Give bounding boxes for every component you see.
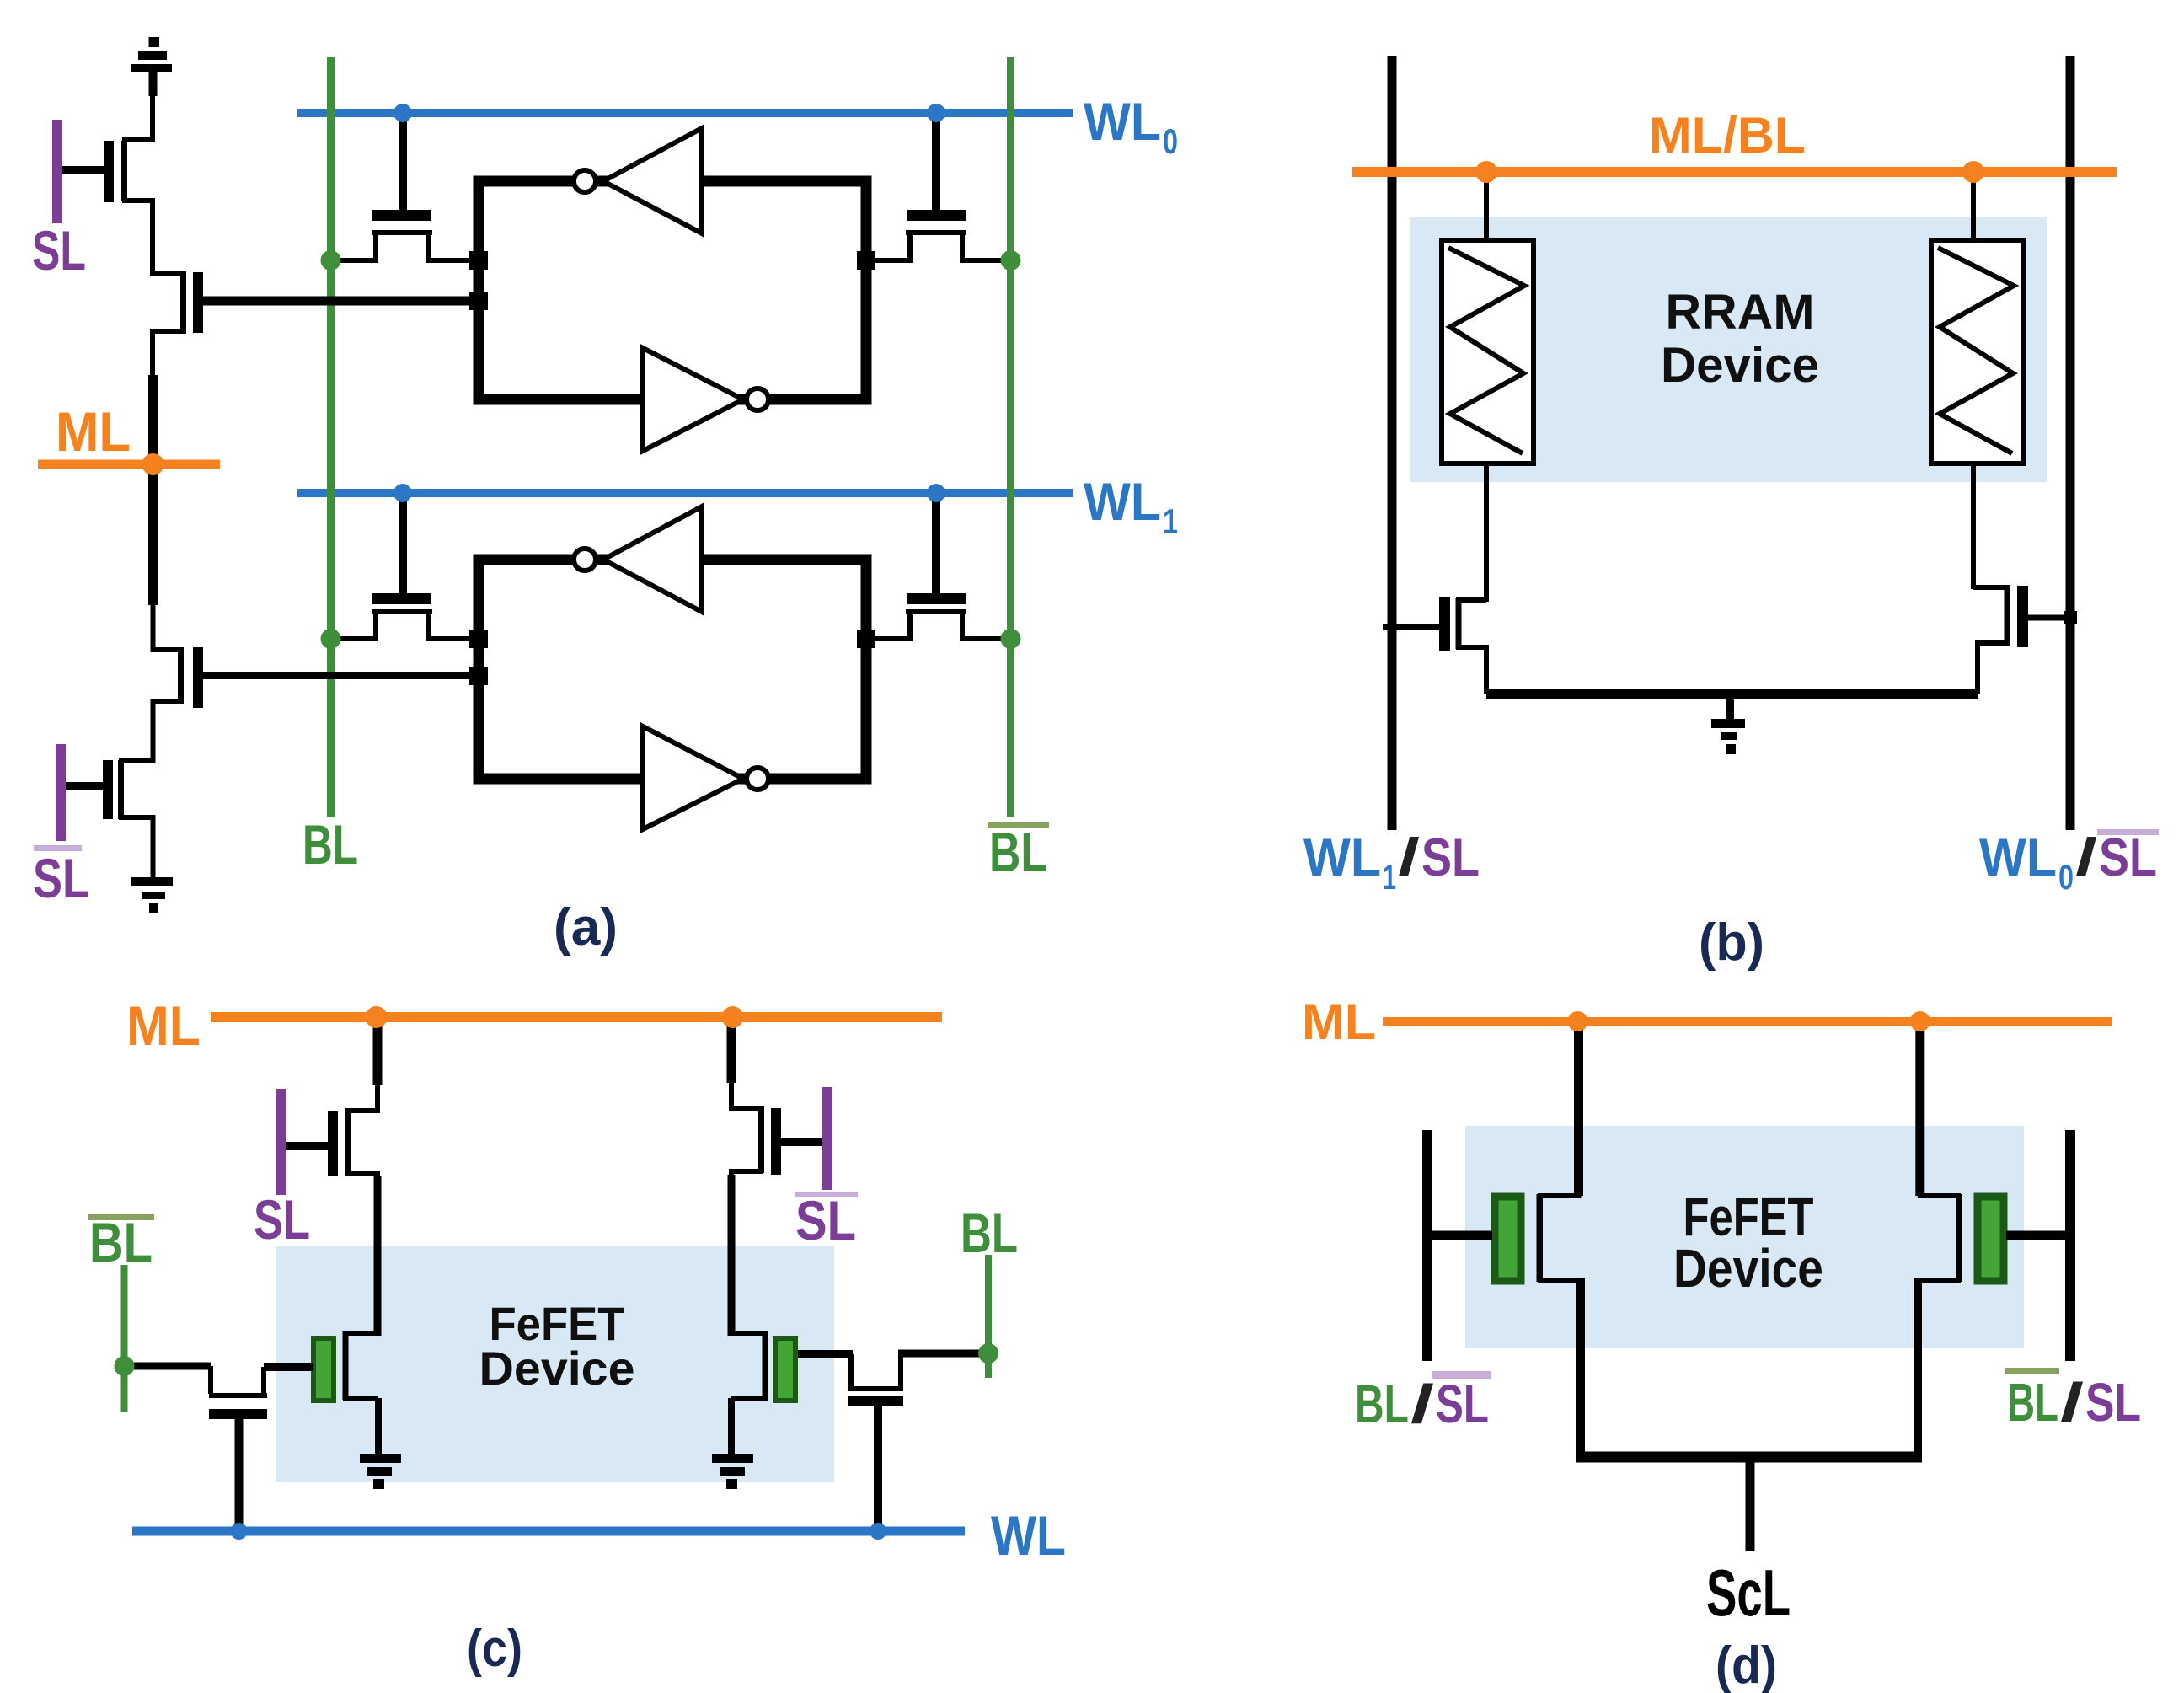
svg-text:RRAM: RRAM <box>1666 285 1815 340</box>
ground GND5 (c right) <box>712 1454 753 1489</box>
svg-text:WL: WL <box>991 1504 1066 1567</box>
WL1/SL rail (left) <box>1388 56 1397 830</box>
latch1 box <box>479 181 866 399</box>
svg-text:WL: WL <box>1303 828 1381 887</box>
bottom source rail (b) <box>1486 689 1978 699</box>
ML/BL junction dot left <box>1475 161 1497 183</box>
ground GND4 (c left) <box>360 1454 401 1489</box>
ML junction dot left (d) <box>1568 1011 1588 1031</box>
WL1 line <box>297 489 1073 497</box>
ML line (a) <box>38 460 220 469</box>
RRAM device R1 zigzag <box>1448 248 1524 453</box>
svg-text:SL: SL <box>32 219 86 281</box>
transistor Q14 gate bar <box>848 1396 903 1406</box>
wire ML to FeFET F4 <box>1915 1021 1924 1196</box>
svg-text:SL: SL <box>2085 1372 2141 1433</box>
wire ML/BL to RRAM R2 <box>1971 172 1976 243</box>
wire ML to Q12 (right chain) <box>727 1017 736 1083</box>
wire Q7 source to latch2 <box>428 614 479 639</box>
wire RRAM R2 to Q10 <box>1971 462 1976 589</box>
wire BL to Q7 drain <box>331 614 377 639</box>
WL junction dot right (c) <box>870 1523 886 1540</box>
svg-text:SL: SL <box>1421 828 1480 887</box>
wire Q8 source to BLbar <box>962 614 1011 639</box>
ground GND2 (bottom of left chain) <box>131 877 173 913</box>
latch2 inverter U3 (points left) <box>603 506 702 612</box>
FeFET F3 (left) source/drain <box>1540 1193 1581 1280</box>
transistor Q12 channel plate <box>758 1106 764 1173</box>
latch1 inverter U1 (points left) <box>603 128 702 233</box>
wire Q12 to FeFET F2 <box>728 1175 736 1336</box>
SLbar terminal bar <box>56 744 66 841</box>
bottom rail (d) <box>1576 1452 1922 1463</box>
junction Q10 gate on rail <box>2064 611 2077 624</box>
wire Q1 gate to SL <box>61 166 104 174</box>
RRAM device R2 body <box>1931 240 2023 463</box>
wire WL-transistor to F1 gate <box>264 1363 313 1371</box>
ML junction dot left <box>366 1006 388 1028</box>
ground GND3 (b) <box>1711 694 1745 754</box>
ground GND1 (top of left chain, inverted) <box>131 37 173 96</box>
FeFET F4 (right) source/drain <box>1918 1193 1958 1280</box>
BLbar/SL label <box>2005 1368 2141 1433</box>
ML junction dot right (d) <box>1910 1011 1930 1031</box>
transistor Q8 gate bar <box>907 593 966 604</box>
latch1 inverter U2 (points right) <box>643 348 743 451</box>
transistor Q14 (right WL transistor) drain stub <box>848 1354 854 1387</box>
wire F2 source to ground <box>728 1398 735 1455</box>
latch2 inverter U4 (points right) <box>643 726 743 829</box>
ML junction dot right <box>722 1006 744 1028</box>
transistor Q6 gate bar <box>907 210 966 221</box>
svg-text:WL: WL <box>1979 828 2057 887</box>
transistor Q1 (SL pass transistor, channel+source/drain) <box>125 93 153 276</box>
latch2 junction left row wire <box>469 630 488 648</box>
blue highlight box (b) <box>1410 217 2047 482</box>
row1 pass transistor Q6 gate stem from WL0 <box>932 117 940 211</box>
svg-text:WL: WL <box>1084 473 1161 532</box>
svg-text:/: / <box>1410 1374 1434 1434</box>
transistor Q13 gate bar <box>209 1409 267 1419</box>
svg-text:SL: SL <box>33 847 89 909</box>
latch2 junction left gate wire <box>469 667 488 685</box>
BL junction dot (c) <box>978 1343 998 1364</box>
wire Q14 to BL <box>898 1350 988 1358</box>
wire Q11 to FeFET F1 <box>374 1176 382 1336</box>
svg-text:/: / <box>2075 828 2097 887</box>
svg-text:(b): (b) <box>1699 913 1764 972</box>
latch2 inverter U4 bubble <box>747 768 768 790</box>
svg-text:BL: BL <box>89 1211 153 1273</box>
svg-text:Device: Device <box>1673 1238 1823 1299</box>
SLbar terminal bar (c right) <box>822 1087 832 1190</box>
ML junction dot <box>142 453 164 475</box>
transistor Q4 gate bar <box>103 760 113 819</box>
transistor Q2 (search transistor, gate from latch1) <box>153 274 184 379</box>
FeFET F2 ferroelectric gate <box>775 1338 795 1401</box>
wire Q9 gate to left rail <box>1383 624 1439 630</box>
transistor Q8 channel <box>906 609 966 614</box>
svg-text:BL: BL <box>1355 1374 1409 1434</box>
transistor Q4 (SLbar pass transistor) <box>121 758 153 877</box>
BL line <box>327 57 335 817</box>
RRAM device R1 body <box>1442 240 1534 463</box>
transistor Q14 channel <box>848 1386 903 1391</box>
svg-text:/: / <box>1398 828 1420 887</box>
svg-text:ScL: ScL <box>1706 1556 1791 1630</box>
transistor Q10 gate bar <box>2017 586 2028 647</box>
transistor Q13 (left WL transistor) drain stub <box>208 1366 213 1394</box>
BL/SLbar terminal bar (left) <box>1422 1130 1432 1361</box>
BL line (c) <box>985 1255 992 1378</box>
transistor Q12 gate bar <box>771 1108 781 1175</box>
wire Q2 gate to latch1 (thick) <box>203 297 480 306</box>
transistor Q1 channel plate <box>121 141 127 201</box>
svg-text:BL: BL <box>961 1202 1018 1264</box>
transistor Q6 channel <box>906 230 966 235</box>
wire Q13 gate to WL <box>235 1419 244 1532</box>
BLbar overline <box>988 822 1049 828</box>
svg-text:0: 0 <box>1163 121 1178 161</box>
svg-text:SL: SL <box>2099 828 2157 887</box>
wire F4 gate to BLbar/SL bar <box>2006 1231 2070 1240</box>
transistor Q11 gate bar <box>328 1111 338 1176</box>
FeFET F1 ferroelectric gate <box>313 1338 334 1401</box>
FeFET F3 channel plate <box>1537 1194 1543 1282</box>
svg-text:SL: SL <box>1436 1374 1489 1434</box>
WL0/SLbar label <box>1979 828 2159 897</box>
FeFET F1 channel plate <box>343 1331 349 1400</box>
RRAM device R2 zigzag <box>1938 248 2014 453</box>
transistor Q1 gate bar <box>104 141 114 202</box>
wire F3 source down <box>1576 1278 1585 1457</box>
wire Q11 gate to SL <box>286 1142 328 1150</box>
FeFET F4 ferroelectric gate <box>1978 1197 2004 1281</box>
transistor Q11 (left SL transistor) <box>348 1083 377 1180</box>
svg-text:(a): (a) <box>554 898 618 956</box>
svg-text:Device: Device <box>1661 338 1819 393</box>
WL0 junction dot right <box>927 104 945 122</box>
wire BL to Q5 drain <box>331 234 377 260</box>
transistor Q9 gate bar <box>1439 597 1450 651</box>
svg-text:BL: BL <box>989 821 1047 883</box>
WL1 junction dot left <box>393 484 412 502</box>
transistor Q13 channel <box>209 1393 267 1398</box>
row1 pass transistor Q5 gate stem from WL0 <box>399 117 407 211</box>
FeFET F4 channel plate <box>1956 1194 1962 1282</box>
transistor Q3 channel plate <box>178 648 184 703</box>
BLbar line (c) <box>121 1265 128 1412</box>
wire F3 gate to BL/SLbar bar <box>1427 1231 1492 1240</box>
BLbar overline (c) <box>88 1214 154 1220</box>
transistor Q2 channel plate <box>180 272 186 333</box>
wire ML to FeFET F3 <box>1574 1021 1583 1196</box>
transistor Q9 (left, gate from WL1/SL rail) <box>1459 600 1486 694</box>
wire Q4 gate to SLbar <box>66 782 103 790</box>
wire BLbar to Q13 <box>125 1363 211 1370</box>
BLbar junction dot row1 <box>1001 250 1021 271</box>
wire latch1 to Q6 drain <box>866 234 910 260</box>
wire latch2 to Q8 drain <box>866 614 910 639</box>
BLbar junction dot row2 <box>1001 629 1021 649</box>
svg-text:WL: WL <box>1084 93 1161 152</box>
BLbar junction dot (c) <box>115 1356 135 1376</box>
wire Q10 gate to right rail <box>2028 615 2076 621</box>
SL terminal bar (c left) <box>276 1089 286 1195</box>
wire ML/BL to RRAM R1 <box>1484 172 1489 243</box>
wire Q12 gate to SLbar <box>781 1138 824 1146</box>
BL junction dot row1 <box>321 250 341 271</box>
BL/SLbar label <box>1355 1371 1491 1434</box>
svg-text:ML: ML <box>126 994 201 1057</box>
svg-text:1: 1 <box>1163 501 1178 541</box>
transistor Q4 channel plate <box>118 760 124 819</box>
transistor Q3 gate bar <box>193 647 203 708</box>
svg-text:BL: BL <box>2007 1372 2058 1433</box>
svg-text:SL: SL <box>254 1188 310 1251</box>
svg-text:1: 1 <box>1383 857 1396 897</box>
svg-text:(d): (d) <box>1716 1637 1777 1693</box>
wire F2 gate to WL-transistor <box>798 1350 853 1358</box>
transistor Q14 source stub <box>898 1354 903 1387</box>
transistor Q13 source stub <box>261 1367 266 1394</box>
ScL stem <box>1746 1457 1755 1551</box>
row2 pass transistor Q8 gate stem from WL1 <box>932 497 940 594</box>
latch1 junction left gate wire <box>469 292 488 310</box>
SL terminal bar <box>52 120 62 223</box>
latch2 junction right row wire <box>857 630 875 648</box>
svg-text:ML: ML <box>56 400 131 463</box>
WL junction dot left (c) <box>231 1523 248 1540</box>
latch1 inverter U1 bubble <box>574 170 596 192</box>
BLbar line <box>1007 57 1014 817</box>
wire Q2 source to ML <box>148 375 158 464</box>
wire F4 source down <box>1914 1278 1922 1457</box>
ML/BL line <box>1352 167 2117 177</box>
svg-text:ML: ML <box>1302 994 1376 1050</box>
SLbar overline <box>34 845 82 851</box>
svg-text:/: / <box>2060 1372 2084 1433</box>
transistor Q9 channel plate <box>1456 598 1462 649</box>
wire ML to Q3 <box>148 464 158 605</box>
FeFET F2 channel plate <box>763 1331 768 1400</box>
WL1/SL label <box>1303 828 1480 897</box>
svg-text:(c): (c) <box>467 1620 522 1678</box>
transistor Q5 channel <box>372 230 432 235</box>
transistor Q7 channel <box>372 609 432 614</box>
latch1 junction right row wire <box>857 251 875 270</box>
WL line (c) <box>132 1527 965 1536</box>
wire Q6 source to BLbar <box>962 234 1011 260</box>
FeFET F1 (left) source/drain <box>345 1333 378 1398</box>
wire Q5 source to latch1 <box>428 234 479 260</box>
SLbar overline (c right) <box>795 1192 858 1197</box>
wire ML to Q11 (left chain) <box>373 1017 383 1085</box>
blue highlight box (c) <box>276 1246 834 1482</box>
latch1 inverter U2 bubble <box>747 388 768 410</box>
ML/BL junction dot right <box>1962 161 1984 183</box>
svg-text:BL: BL <box>302 813 358 876</box>
transistor Q12 (right SLbar transistor) <box>731 1081 761 1178</box>
WL1 junction dot right <box>927 484 945 502</box>
BLbar/SL terminal bar (right) <box>2065 1130 2075 1361</box>
transistor Q2 gate bar <box>193 272 203 333</box>
wire Q3 gate to latch2 (thin) <box>203 672 480 679</box>
latch2 box <box>479 560 866 779</box>
latch1 junction left row wire <box>469 251 488 270</box>
WL0 line <box>297 109 1073 117</box>
transistor Q11 channel plate <box>345 1109 351 1175</box>
BL junction dot row2 <box>321 629 341 649</box>
wire RRAM R1 to Q9 <box>1484 462 1489 602</box>
svg-text:Device: Device <box>479 1342 635 1395</box>
transistor Q10 channel plate <box>2005 586 2010 645</box>
WL0 junction dot left <box>393 104 412 122</box>
svg-text:0: 0 <box>2058 857 2074 897</box>
FeFET F2 (right) source/drain <box>731 1333 765 1398</box>
transistor Q5 gate bar <box>372 210 431 221</box>
wire Q14 gate to WL <box>874 1406 882 1532</box>
transistor Q3 (search transistor, gate from latch2) <box>153 603 182 763</box>
wire F1 source to ground <box>375 1398 382 1455</box>
WL0/SLbar rail (right) <box>2066 56 2075 830</box>
blue highlight box (d) <box>1465 1126 2024 1348</box>
ML line (d) <box>1383 1017 2112 1026</box>
ML line (c) <box>211 1012 942 1022</box>
row2 pass transistor Q7 gate stem from WL1 <box>399 497 407 594</box>
latch2 inverter U3 bubble <box>574 549 596 571</box>
transistor Q7 gate bar <box>372 593 431 604</box>
svg-text:ML/BL: ML/BL <box>1649 107 1806 163</box>
FeFET F3 ferroelectric gate <box>1495 1197 1521 1281</box>
transistor Q10 (right, gate from WL0/SLbar rail) <box>1973 587 2007 694</box>
svg-text:SL: SL <box>795 1189 856 1251</box>
